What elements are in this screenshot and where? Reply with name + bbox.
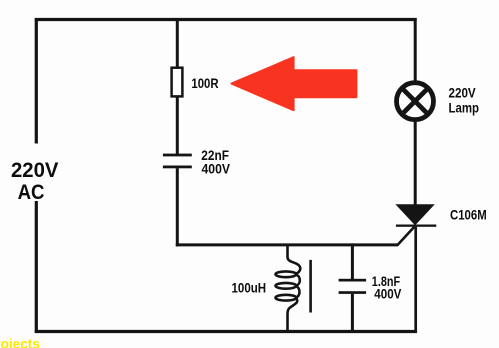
inductor loop 1 (276, 271, 297, 277)
lamp X cross (404, 90, 427, 113)
wire bottom horizontal (35, 330, 417, 333)
wire 1.8nF bottom (351, 294, 354, 333)
svg-text:C106M: C106M (450, 207, 487, 222)
red arrow pointing at resistor (232, 57, 357, 110)
svg-text:100uH: 100uH (232, 281, 267, 296)
wire 1.8nF branch top (351, 243, 354, 279)
wire resistor branch from top wire (176, 20, 179, 70)
inductor hump 1 (296, 275, 300, 286)
wire mid horizontal gate net (176, 243, 398, 246)
svg-text:100R: 100R (191, 75, 218, 91)
SCR cathode bar (396, 225, 436, 227)
inductor core bar (309, 260, 312, 313)
inductor exit wire (288, 298, 298, 333)
wire resistor to capacitor 22nF (176, 96, 179, 154)
svg-text:220V: 220V (449, 86, 477, 101)
wire capacitor 22nF to mid wire (176, 168, 179, 246)
inductor loop 2 (276, 283, 297, 289)
wire SCR cathode down (414, 227, 417, 333)
inductor loop 3 (276, 295, 297, 301)
resistor R1 100R (172, 68, 183, 97)
lamp L1 circle (397, 83, 434, 120)
svg-text:Lamp: Lamp (449, 100, 480, 115)
svg-text:AC: AC (18, 180, 45, 204)
capacitor C1 22nF plates (163, 154, 192, 157)
svg-text:projects: projects (0, 337, 40, 348)
svg-text:400V: 400V (374, 286, 402, 301)
wire lamp to SCR anode (414, 122, 417, 207)
wire right vertical top lamp anode (414, 18, 417, 82)
wire gate diagonal (397, 226, 415, 245)
svg-text:400V: 400V (202, 161, 231, 176)
capacitor C2 1.8nF plates (339, 279, 367, 282)
inductor L1 100uH coil entry wire (288, 244, 301, 274)
wire top horizontal (35, 18, 417, 21)
wire left vertical upper (35, 18, 38, 144)
svg-text:220V: 220V (11, 158, 59, 182)
wire left vertical lower (35, 201, 38, 333)
SCR Q1 C106M triangle (395, 204, 434, 225)
inductor hump 2 (296, 286, 299, 297)
